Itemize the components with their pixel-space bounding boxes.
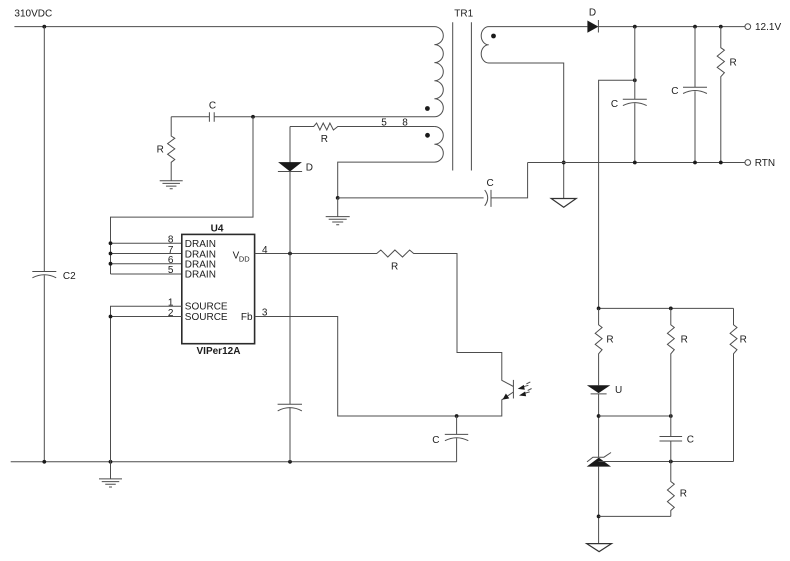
svg-text:SOURCE: SOURCE	[185, 312, 228, 323]
node dot vdd cap at bottom rail	[288, 460, 292, 464]
svg-text:5: 5	[168, 265, 174, 276]
node dot drain pin 7	[109, 252, 113, 256]
emitter arrow	[503, 394, 510, 400]
svg-text:C2: C2	[63, 271, 76, 282]
svg-text:C: C	[611, 99, 618, 110]
wire bottom link branch2	[599, 515, 671, 517]
node dot Fb cap junction	[455, 414, 459, 418]
ground snubber (4-line)	[160, 181, 183, 189]
svg-text:R: R	[157, 144, 164, 155]
svg-text:C: C	[432, 435, 439, 446]
wire RTN rail	[528, 162, 745, 164]
svg-text:R: R	[391, 262, 398, 273]
svg-text:R: R	[730, 57, 737, 68]
node dot divider bus branch2	[669, 307, 673, 311]
svg-text:D: D	[306, 163, 313, 174]
node dot RTN cap1	[633, 161, 637, 165]
node dot branch1 mid junction	[597, 414, 601, 418]
diode U optocoupler LED	[587, 385, 610, 393]
transformer TR1 auxiliary winding	[338, 127, 444, 198]
svg-text:C: C	[209, 101, 216, 112]
svg-text:U4: U4	[211, 223, 224, 234]
wire source pin 1	[111, 306, 182, 316]
capacitor C2	[32, 272, 56, 278]
svg-text:C: C	[671, 86, 678, 97]
light arrow 2 into phototransistor	[524, 389, 531, 394]
resistor R snubber (vertical)	[168, 117, 175, 181]
capacitor C (horizontal polarized) between grounds	[485, 190, 491, 207]
resistor R output bleeder (vertical)	[717, 27, 724, 163]
wire cap to RTN rail	[491, 163, 528, 198]
svg-text:RTN: RTN	[755, 158, 775, 169]
node dot secondary to RTN	[562, 161, 566, 165]
ground divider (triangle)	[587, 544, 612, 552]
transistor Q optocoupler phototransistor	[512, 380, 514, 399]
capacitor C divider (non-polarized)	[660, 437, 683, 442]
wire source pin 2 and source bus down	[111, 317, 182, 462]
svg-text:DD: DD	[239, 255, 250, 264]
wire opto emitter to Fb pin 3	[255, 317, 514, 417]
node terminal 12.1V	[745, 24, 751, 30]
node dot drain pin 6	[109, 262, 113, 266]
transformer TR1 core	[453, 22, 472, 170]
node dot RTN R	[719, 161, 723, 165]
node dot aux ground junction	[336, 196, 340, 200]
diode D (vertical) on aux rectifier line	[289, 127, 291, 254]
svg-text:R: R	[321, 134, 328, 145]
zener diode (TL431 style)	[587, 453, 611, 462]
node dot left rail to bottom rail	[42, 460, 46, 464]
resistor R divider branch2 lower (vertical)	[667, 441, 674, 516]
resistor R divider branch1 (vertical)	[595, 308, 602, 385]
diode D output rectifier (horizontal)	[587, 21, 598, 33]
node dot RTN cap2	[693, 161, 697, 165]
svg-text:C: C	[687, 434, 694, 445]
wire feedback divider top bus	[599, 307, 734, 309]
node dot VDD junction	[288, 252, 292, 256]
node dot source junction	[109, 315, 113, 319]
svg-text:Fb: Fb	[241, 312, 253, 323]
svg-text:R: R	[740, 334, 747, 345]
light arrow 1 into phototransistor	[523, 382, 530, 387]
wire output rail 12.1V	[598, 26, 745, 28]
wire zener cathode link to branches 2,3	[599, 461, 734, 463]
wire top rail 310VDC into transformer primary, with primary winding of TR1	[14, 27, 443, 117]
svg-text:5: 5	[381, 117, 387, 128]
svg-text:U: U	[615, 385, 622, 396]
capacitor C vdd (polarized, below U4)	[278, 254, 302, 462]
resistor R divider branch3 (vertical)	[730, 308, 737, 461]
svg-text:310VDC: 310VDC	[14, 9, 52, 20]
svg-text:TR1: TR1	[454, 9, 473, 20]
svg-text:3: 3	[262, 307, 268, 318]
wire bottom primary rail	[11, 461, 457, 463]
wire zener anode down to ground	[598, 467, 600, 544]
svg-text:R: R	[606, 334, 613, 345]
transformer TR1 secondary winding	[481, 27, 587, 199]
winding polarity dot secondary	[491, 34, 496, 39]
capacitor C on Fb (polarized)	[445, 416, 469, 462]
ground secondary (triangle)	[551, 199, 576, 208]
node dot sense tap	[633, 78, 637, 82]
ground primary (4-line) below bottom rail	[99, 462, 122, 487]
capacitor C output 2 (polarized)	[683, 27, 707, 163]
wire aux winding top with resistor R	[290, 123, 434, 130]
svg-text:VIPer12A: VIPer12A	[197, 346, 241, 357]
node dot output rail R	[719, 25, 723, 29]
node dot output rail cap1	[633, 25, 637, 29]
svg-text:12.1V: 12.1V	[755, 22, 781, 33]
svg-text:D: D	[589, 7, 596, 18]
svg-text:4: 4	[262, 245, 268, 256]
wire snubber cap to left	[171, 116, 253, 118]
svg-text:R: R	[681, 334, 688, 345]
winding polarity dot aux	[425, 133, 430, 138]
svg-text:R: R	[680, 489, 687, 500]
resistor R divider branch2 (vertical)	[667, 308, 674, 436]
svg-text:DRAIN: DRAIN	[185, 270, 216, 281]
capacitor C output 1 (polarized)	[623, 27, 647, 163]
winding polarity dot primary	[425, 106, 430, 111]
node dot drain pin 8	[109, 241, 113, 245]
node dot branch2 mid junction	[669, 414, 673, 418]
wire sense tap from output	[599, 80, 635, 308]
wire aux ground junction to cap	[338, 197, 484, 199]
svg-text:C: C	[487, 178, 494, 189]
node dot divider bus branch1	[597, 307, 601, 311]
wire drain bus from snubber junction to U4 drain pins	[111, 117, 254, 274]
node dot output rail cap2	[693, 25, 697, 29]
svg-text:2: 2	[168, 308, 174, 319]
ground aux (4-line)	[326, 198, 350, 225]
wire left 310VDC rail down	[43, 27, 45, 462]
node dot bottom junction	[597, 515, 601, 519]
node snubber junction dot	[251, 115, 255, 119]
node dot source bus at bottom rail	[109, 460, 113, 464]
capacitor C snubber (horizontal, non-polarized)	[209, 112, 214, 122]
node junction dot top-left	[42, 25, 46, 29]
node dot zener link branch2	[669, 460, 673, 464]
op-amp U4 VIPer12A body	[182, 234, 255, 343]
svg-text:8: 8	[402, 117, 408, 128]
wire LED cathode down	[598, 394, 600, 457]
wire VDD pin 4 to optocoupler collector	[255, 250, 514, 387]
node terminal RTN	[745, 160, 751, 166]
wire branch1-branch2 mid link	[599, 415, 671, 417]
